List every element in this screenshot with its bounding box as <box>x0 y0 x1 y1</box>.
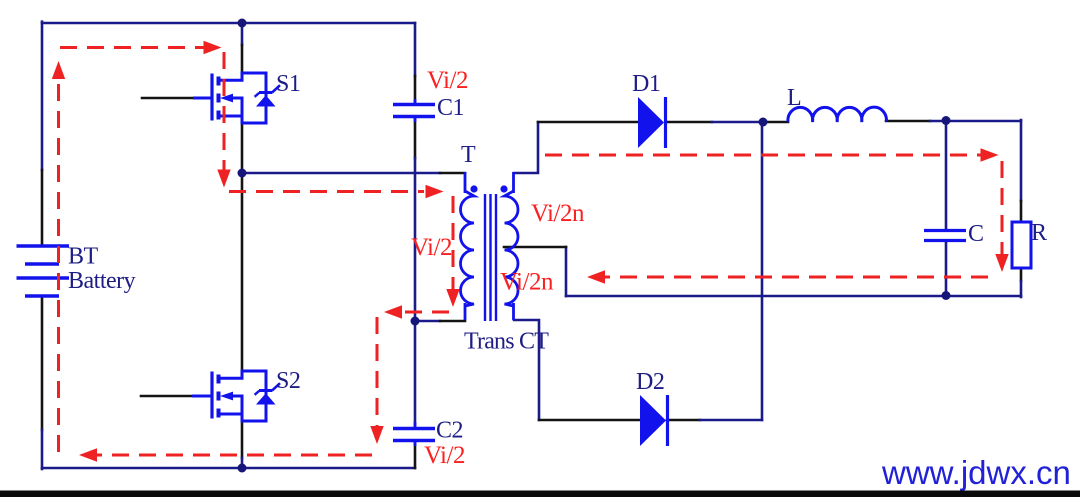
arrowhead down (to bottom rail) <box>370 426 383 444</box>
svg-text:Battery: Battery <box>68 268 136 294</box>
wire top rail <box>42 22 415 25</box>
transformer polarity dot secondary <box>500 185 507 192</box>
svg-text:C2: C2 <box>436 418 463 444</box>
transformer polarity dot primary <box>470 185 477 192</box>
junction dot C divider / primary return <box>411 317 420 326</box>
junction dot top rail / S1 <box>238 19 247 28</box>
wire center tap from secondary <box>504 246 566 249</box>
wire red dashed: left loop up (battery to top) <box>57 80 60 452</box>
junction dot L output / C branch <box>942 116 951 125</box>
wire red dashed: top horizontal right <box>60 46 205 49</box>
wire red dashed: down along primary <box>452 196 455 289</box>
wire D1 anode <box>538 121 638 124</box>
junction dot midpoint node <box>238 169 247 178</box>
arrowhead down (load) <box>995 254 1008 272</box>
wire midpoint node to S2 drain <box>241 173 244 371</box>
wire C1 bottom to C2 top <box>414 119 417 158</box>
wire red dashed: secondary forward right <box>545 154 981 157</box>
wire midpoint node to transformer primary <box>242 172 440 175</box>
wire D2 anode <box>539 419 640 422</box>
wire red dashed: bottom horizontal left <box>96 454 372 457</box>
capacitor C1 <box>393 99 435 122</box>
svg-text:R: R <box>1031 220 1047 246</box>
wire output C branch upper <box>945 121 948 230</box>
bottom black bar <box>0 491 1080 498</box>
svg-text:T: T <box>461 142 476 168</box>
capacitor C (output) <box>924 231 966 241</box>
arrowhead down (through S1) <box>217 170 230 188</box>
svg-text:C1: C1 <box>437 95 464 121</box>
wire primary return to C divider junction <box>415 320 440 323</box>
svg-text:Vi/2n: Vi/2n <box>531 200 585 227</box>
wire D2 cathode <box>667 419 700 422</box>
junction dot C bottom / return rail <box>942 291 951 300</box>
junction dot D1 cathode / D2 riser <box>759 118 768 127</box>
inductor L <box>788 107 887 122</box>
transformer core <box>485 194 496 321</box>
wire D1 cathode to junction <box>666 121 712 124</box>
wire red dashed: down through S1 <box>223 52 226 170</box>
wire trunk above S1 <box>241 23 244 45</box>
wire secondary bottom lead to D2 <box>514 320 539 420</box>
transformer secondary winding <box>505 172 519 320</box>
arrowhead down (primary) <box>446 289 459 307</box>
arrowhead right (secondary forward) <box>981 148 999 161</box>
wire right edge down to R <box>1020 120 1023 201</box>
arrowhead left (below primary) <box>384 305 402 318</box>
svg-text:Vi/2n: Vi/2n <box>500 269 554 296</box>
transistor S1 (MOSFET) <box>193 73 280 123</box>
wire output return rail <box>566 295 1021 298</box>
svg-text:C: C <box>968 221 984 247</box>
diode D2 <box>640 395 668 446</box>
wire S2 source to bottom rail <box>241 421 244 458</box>
wire bottom rail <box>42 467 415 470</box>
wire red dashed: short left below primary <box>400 311 449 314</box>
wire D2 cathode riser to D1 junction <box>761 122 764 420</box>
arrowhead up (left loop) <box>52 61 65 79</box>
svg-text:D1: D1 <box>632 71 660 97</box>
transformer T primary winding <box>461 172 475 320</box>
wire secondary top lead riser <box>514 122 538 173</box>
wire S1 gate lead <box>142 97 194 100</box>
wire R bottom to return rail <box>1020 268 1023 281</box>
svg-text:www.jdwx.cn: www.jdwx.cn <box>881 454 1071 491</box>
svg-text:Vi/2: Vi/2 <box>424 442 465 469</box>
wire C2 bottom to bottom rail <box>414 441 417 468</box>
wire S2 gate lead <box>141 395 192 398</box>
arrowhead left (bottom) <box>79 448 97 461</box>
junction dot bottom rail / S2 <box>238 464 247 473</box>
wire output C branch lower <box>945 241 948 296</box>
wire capacitor branch C1 top <box>414 23 417 76</box>
wire red dashed: midpoint horizontal right <box>229 190 424 193</box>
arrowhead left (secondary return) <box>587 270 605 283</box>
arrowhead right (top) <box>204 41 222 54</box>
svg-text:D2: D2 <box>636 369 664 395</box>
transistor S2 (MOSFET) <box>192 371 280 421</box>
wire red dashed: down to bottom rail <box>376 317 379 427</box>
svg-text:Vi/2: Vi/2 <box>427 67 468 94</box>
wire left column upper (battery +) <box>41 22 44 170</box>
svg-text:S1: S1 <box>276 71 300 97</box>
resistor R (load) <box>1012 222 1031 268</box>
svg-text:BT: BT <box>68 244 99 270</box>
wire junction to inductor L <box>763 121 788 124</box>
wire red dashed: secondary return left <box>604 276 988 279</box>
svg-text:Vi/2: Vi/2 <box>411 234 452 261</box>
wire S1 source to midpoint node <box>241 123 244 173</box>
wire center tap riser <box>565 247 568 296</box>
diode D1 <box>638 97 666 148</box>
battery BT <box>17 246 70 296</box>
svg-text:Trans CT: Trans CT <box>464 329 549 355</box>
svg-text:S2: S2 <box>276 368 300 394</box>
wire inductor L to output node <box>886 120 930 123</box>
wire red dashed: down at load <box>1001 161 1004 255</box>
wire left column lower (battery -) <box>41 296 44 430</box>
svg-text:L: L <box>787 85 801 111</box>
arrowhead right (midpoint) <box>426 185 444 198</box>
capacitor C2 <box>393 422 435 446</box>
